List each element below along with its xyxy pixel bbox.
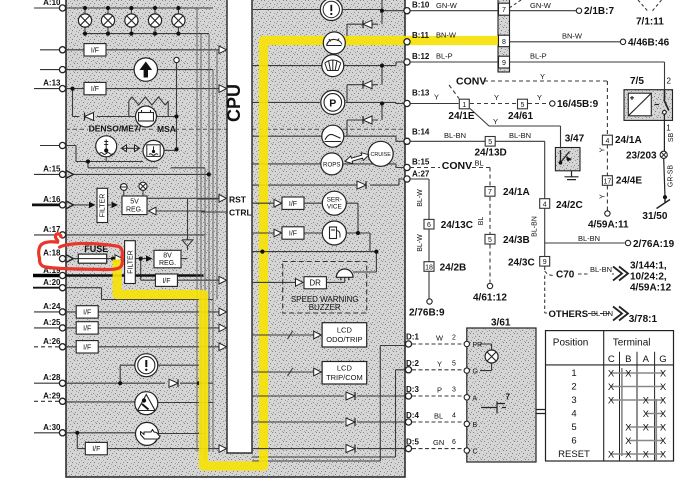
- svg-text:X: X: [643, 449, 650, 460]
- connector 24/1A pin 4: [602, 135, 612, 145]
- connector 24/1E pin 1: [459, 99, 469, 109]
- svg-text:A:25: A:25: [43, 318, 61, 327]
- position/terminal table frame: [546, 331, 674, 461]
- pin A:18: [59, 256, 65, 262]
- svg-text:D:4: D:4: [406, 411, 419, 420]
- bulb check indicator C1: [320, 0, 342, 21]
- pin D:3: [405, 393, 411, 399]
- pin (unlabeled): [59, 67, 65, 73]
- pin PR: [464, 341, 469, 346]
- battery symbol: [136, 106, 157, 127]
- wire A:15 long row: [74, 173, 209, 175]
- pin D:1: [405, 341, 411, 347]
- svg-text:6: 6: [427, 222, 431, 229]
- svg-text:A:30: A:30: [43, 423, 61, 432]
- switch 3/47 internals: [561, 150, 570, 163]
- svg-text:BL-P: BL-P: [530, 52, 547, 61]
- wire D:3 row: [252, 395, 405, 397]
- wire pin3 lead: [40, 69, 60, 71]
- svg-text:2: 2: [452, 335, 456, 342]
- wire A:26 row: [66, 346, 219, 348]
- wire B:13 Y to 24/1E: [410, 103, 459, 105]
- wire diode row under temp: [88, 162, 205, 168]
- wire rops row B:15: [252, 164, 405, 168]
- svg-text:5: 5: [521, 102, 525, 109]
- interface I/F box A:26: [76, 341, 98, 353]
- minus-circle symbol above 5V: [123, 190, 125, 196]
- voltage stabilizer 7/5 body: [624, 90, 673, 121]
- svg-text:2: 2: [571, 382, 576, 393]
- switch 3/47 body: [555, 148, 580, 171]
- wire A:20 row: [66, 288, 213, 300]
- wire wiper row B:12: [252, 62, 405, 66]
- svg-text:BL-P: BL-P: [436, 52, 453, 61]
- svg-text:A: A: [643, 354, 650, 365]
- pin A:26: [59, 344, 65, 350]
- pin B:12: [404, 59, 410, 65]
- svg-text:5: 5: [488, 139, 492, 146]
- svg-text:Y: Y: [600, 194, 607, 199]
- wire D:2 dashed to 3/61: [412, 369, 467, 371]
- wire B:11 BN-W after connector: [510, 41, 620, 43]
- wire A:25 row: [66, 327, 219, 329]
- svg-text:BL-BN: BL-BN: [444, 131, 466, 140]
- svg-text:24/13C: 24/13C: [441, 220, 473, 231]
- svg-text:24/3C: 24/3C: [508, 257, 535, 268]
- svg-text:4: 4: [452, 413, 456, 420]
- svg-text:A: A: [473, 395, 478, 402]
- wire bulb-check row B:10: [252, 0, 405, 11]
- hand-drawn red circle around FUSE: [39, 234, 123, 270]
- chevron to 3/144 group: [613, 267, 628, 281]
- svg-text:BL-W: BL-W: [417, 189, 424, 207]
- svg-text:BL-BN: BL-BN: [591, 309, 613, 318]
- diode D-B13: [363, 116, 372, 124]
- wire A:10 lamp supply row: [66, 7, 213, 9]
- svg-text:B:11: B:11: [412, 31, 429, 40]
- svg-text:A:18: A:18: [43, 249, 61, 258]
- svg-text:4: 4: [543, 201, 547, 208]
- wire pin2 lead: [40, 49, 60, 51]
- svg-text:BL-BN: BL-BN: [590, 265, 612, 274]
- svg-text:FILTER: FILTER: [127, 250, 134, 274]
- wire A:15 lead: [34, 173, 60, 175]
- wire A:20 lead: [33, 287, 60, 289]
- pin A:28: [59, 380, 65, 386]
- svg-text:3/144:1,: 3/144:1,: [630, 261, 667, 272]
- pin C: [464, 448, 469, 453]
- pin B:14: [404, 138, 410, 144]
- svg-text:GN: GN: [433, 438, 444, 447]
- wire diode row1: [347, 11, 382, 42]
- svg-text:4/61:12: 4/61:12: [473, 293, 507, 304]
- pin A:24: [59, 309, 65, 315]
- svg-text:7/5: 7/5: [630, 76, 644, 87]
- wire A:18 lead: [63, 258, 66, 260]
- wire MSA bus vertical: [176, 63, 178, 150]
- junction dots left area: [83, 6, 87, 10]
- pin A:17: [59, 232, 65, 238]
- svg-text:Y: Y: [494, 93, 499, 102]
- filter box (8V): [125, 241, 136, 284]
- dashed 24/3C to C70 and OTHERS: [545, 267, 614, 314]
- connector strip pins 7-9: [498, 0, 510, 72]
- svg-text:X: X: [643, 395, 650, 406]
- regulator 8V REG: [154, 250, 181, 267]
- svg-text:24/1E: 24/1E: [448, 111, 474, 122]
- connector pin 9: [499, 56, 510, 68]
- driver DR box: [304, 277, 326, 289]
- svg-text:D:5: D:5: [406, 438, 419, 447]
- svg-text:G: G: [659, 354, 666, 365]
- pin B:15: [404, 164, 410, 170]
- connector 24/2B pin 18: [424, 262, 434, 272]
- pin D:4: [405, 419, 411, 425]
- wire A:17 row: [66, 234, 205, 236]
- combi switch 3/61 body: [467, 328, 536, 462]
- svg-text:5: 5: [452, 360, 456, 367]
- svg-text:4: 4: [571, 409, 576, 420]
- svg-text:D:1: D:1: [406, 333, 419, 342]
- wire D:5 dashed to 3/61: [412, 448, 467, 450]
- connector 24/1A pin 7: [485, 187, 495, 197]
- connector 24/4E pin 17: [602, 176, 612, 186]
- wire D rows over highlight: [256, 396, 271, 449]
- svg-text:BL-BN: BL-BN: [578, 234, 600, 243]
- dashed CONV Y upper: [449, 81, 607, 135]
- svg-text:REG.: REG.: [126, 207, 143, 214]
- wire B:10 GN-W: [410, 10, 576, 12]
- lamp L4: [148, 14, 161, 27]
- svg-text:B: B: [625, 354, 631, 365]
- wire A:16 lead bold: [32, 203, 60, 206]
- diode D-A27: [357, 181, 366, 189]
- interface I/F box 8V row: [155, 274, 177, 286]
- svg-text:2/1B:7: 2/1B:7: [584, 6, 614, 17]
- diode D-D3: [346, 392, 355, 400]
- connector 24/13C pin 6: [424, 219, 434, 229]
- svg-text:Terminal: Terminal: [613, 338, 651, 349]
- svg-text:24/4E: 24/4E: [616, 176, 642, 187]
- diode D-B12: [363, 81, 372, 89]
- filter box (5V): [97, 188, 108, 222]
- wire D:2 net: [252, 370, 405, 457]
- svg-text:ROPS: ROPS: [323, 161, 341, 168]
- wire B:14 BL-BN: [410, 141, 545, 256]
- svg-text:A:29: A:29: [43, 391, 61, 400]
- svg-text:OTHERS: OTHERS: [549, 309, 589, 320]
- svg-text:A:20: A:20: [43, 278, 61, 287]
- pin (unlabeled): [59, 47, 65, 53]
- wire battery branch: [73, 89, 177, 117]
- interface I/F box A:24: [76, 306, 98, 318]
- voltage stabilizer inner box: [628, 93, 651, 116]
- wire lamp stubs bottom + return row: [85, 27, 209, 33]
- svg-text:P: P: [437, 386, 442, 395]
- wire fuse row A:18: [73, 258, 187, 260]
- svg-text:X: X: [660, 449, 667, 460]
- svg-text:B:15: B:15: [412, 158, 430, 167]
- svg-text:X: X: [660, 395, 667, 406]
- svg-text:X: X: [625, 449, 632, 460]
- ground at 3/47: [565, 171, 579, 180]
- double arrow DENSO/MSA: [122, 145, 140, 152]
- pin A:19: [59, 272, 65, 278]
- wire A:29 lead dashed: [34, 400, 60, 402]
- display LCD TRIP/COM: [322, 362, 367, 385]
- pin A:20: [59, 285, 65, 291]
- svg-text:4/59A:12: 4/59A:12: [630, 283, 672, 294]
- svg-text:BL: BL: [478, 217, 485, 226]
- high beam indicator: [134, 58, 157, 81]
- wire B:12 BL-P: [410, 62, 665, 90]
- svg-text:B:10: B:10: [412, 1, 430, 10]
- seat belt warning indicator: [135, 392, 158, 415]
- svg-text:LCD: LCD: [337, 326, 353, 335]
- connector pin 7: [499, 3, 510, 15]
- lamp L2: [101, 14, 114, 27]
- speed warning buzzer dashed box: [283, 262, 367, 314]
- dashed B:15 CONV BL chain: [410, 168, 490, 283]
- svg-text:8: 8: [502, 39, 506, 46]
- wire A:24 row: [66, 311, 219, 313]
- double arrow rops-cruise: [345, 153, 369, 164]
- diode D-D4: [346, 418, 355, 426]
- pin B:13: [404, 100, 410, 106]
- wire diode row3: [347, 104, 382, 137]
- wire Y diagonal from 24/1E: [470, 109, 561, 148]
- dashed diagonal top connector: [510, 0, 521, 8]
- arrows into CPU: [219, 46, 227, 54]
- dashed V 7/1:11: [638, 0, 662, 12]
- buzzer dome: [336, 269, 353, 277]
- diode D-A28: [169, 379, 178, 387]
- wire A:13 lead: [34, 88, 60, 90]
- svg-text:X: X: [625, 422, 632, 433]
- link to table: [536, 410, 546, 414]
- wire A:24 lead: [34, 311, 60, 313]
- svg-text:A:13: A:13: [43, 79, 61, 88]
- svg-text:GN-W: GN-W: [436, 1, 458, 10]
- svg-text:BN-W: BN-W: [436, 30, 457, 39]
- wire A:27 diode row: [252, 179, 405, 185]
- svg-text:X: X: [625, 436, 632, 447]
- svg-text:A:24: A:24: [43, 302, 61, 311]
- svg-text:TRIP/COM: TRIP/COM: [326, 373, 363, 382]
- connector 24/2C pin 4: [540, 199, 550, 209]
- svg-text:X: X: [608, 449, 615, 460]
- svg-text:X: X: [660, 436, 667, 447]
- svg-text:2/76B:9: 2/76B:9: [409, 308, 445, 319]
- svg-text:X: X: [660, 368, 667, 379]
- pin B:10: [404, 8, 410, 14]
- svg-text:C70: C70: [556, 270, 575, 281]
- wire D:4 dashed to 3/61: [412, 421, 467, 423]
- svg-text:24/3B: 24/3B: [503, 235, 530, 246]
- wire A:10 lead: [34, 7, 60, 9]
- svg-text:C: C: [608, 354, 615, 365]
- wire A:13 row: [66, 88, 219, 90]
- svg-text:3/78:1: 3/78:1: [629, 314, 658, 325]
- hood open indicator C5: [322, 125, 344, 147]
- svg-text:ODO/TRIP: ODO/TRIP: [326, 335, 362, 344]
- wire buzzer feed over highlight: [256, 251, 271, 253]
- wire A:19 bold row: [66, 274, 204, 276]
- svg-text:9: 9: [502, 60, 506, 67]
- svg-text:MSA: MSA: [157, 124, 176, 134]
- svg-text:PR: PR: [473, 342, 483, 349]
- diode D-D5: [346, 445, 355, 453]
- svg-text:X: X: [643, 422, 650, 433]
- resistor R above battery: [129, 97, 169, 117]
- interface I/F box A:25: [76, 322, 98, 334]
- terminal connection lines: [611, 368, 663, 460]
- svg-text:Y: Y: [434, 93, 439, 102]
- bus verticals: [197, 8, 217, 461]
- wire pin4 lead: [40, 145, 60, 147]
- svg-text:CONV: CONV: [442, 160, 472, 172]
- brake warning indicator: [135, 354, 158, 377]
- wire A:29 belt row: [66, 401, 213, 404]
- svg-text:X: X: [625, 368, 632, 379]
- wire D:1 net: [252, 346, 405, 462]
- wire A:26 lead dashed: [34, 346, 60, 348]
- svg-text:GN-W: GN-W: [530, 1, 552, 10]
- svg-text:5V: 5V: [130, 199, 139, 206]
- wire diode row2: [347, 66, 382, 103]
- wire D:4 row: [252, 421, 405, 423]
- svg-text:X: X: [608, 368, 615, 379]
- pin A:30: [59, 430, 65, 436]
- diode D-A13: [85, 113, 94, 121]
- lamp L5: [172, 14, 185, 27]
- pin (unlabeled): [59, 142, 65, 148]
- wire service/fuel rows over highlight: [256, 203, 271, 233]
- arrow into 5V from right: [149, 207, 157, 215]
- svg-text:Y: Y: [437, 359, 442, 368]
- svg-text:Y: Y: [493, 117, 498, 126]
- pin B: [464, 421, 469, 426]
- connector 24/61 pin 5: [518, 99, 528, 109]
- wire LCD2 row: [252, 371, 315, 373]
- wire service row: [252, 202, 358, 204]
- svg-text:X: X: [660, 422, 667, 433]
- svg-text:23/203: 23/203: [626, 150, 657, 161]
- wire hood row B:14: [252, 136, 405, 141]
- pin A:16: [59, 202, 65, 208]
- lamp in 3/61: [480, 344, 492, 371]
- highlighter yellow trace: [117, 41, 499, 467]
- svg-text:31/50: 31/50: [642, 211, 667, 222]
- pin A: [464, 395, 469, 400]
- pin D:2: [405, 367, 411, 373]
- arrow after fuse: [115, 255, 123, 263]
- wire RST row: [197, 198, 218, 200]
- svg-text:1: 1: [666, 124, 671, 133]
- svg-text:C: C: [473, 449, 478, 456]
- svg-text:24/13D: 24/13D: [475, 148, 507, 159]
- connector 24/3C pin 9: [540, 257, 550, 267]
- wire A:25 lead: [34, 327, 60, 329]
- wire I/F row1: [66, 49, 219, 51]
- svg-text:SER-: SER-: [327, 197, 342, 204]
- wire temp row: [66, 146, 143, 162]
- svg-text:BL-BN: BL-BN: [509, 131, 531, 140]
- cruise indicator C7: [368, 141, 393, 166]
- svg-text:BUZZER: BUZZER: [309, 303, 341, 312]
- svg-text:2: 2: [667, 77, 672, 86]
- display LCD ODO/TRIP: [322, 323, 367, 347]
- svg-text:Y: Y: [540, 72, 545, 81]
- svg-text:BN-W: BN-W: [562, 31, 583, 40]
- svg-text:X: X: [643, 409, 650, 420]
- pin G: [464, 368, 469, 373]
- parking brake indicator C4: [321, 90, 345, 114]
- pin D:5: [405, 446, 411, 452]
- svg-text:A:16: A:16: [43, 195, 61, 204]
- svg-text:SB: SB: [668, 133, 675, 143]
- lamp L1: [78, 14, 91, 27]
- lamp symbol above 5V: [142, 190, 144, 196]
- wire fuel row: [252, 232, 358, 234]
- junction dot on highlight: [260, 250, 264, 254]
- ground 31/50: [657, 197, 671, 208]
- svg-text:24/1A: 24/1A: [615, 135, 642, 146]
- wire CTRL row: [201, 211, 227, 213]
- svg-text:7: 7: [506, 393, 511, 402]
- svg-text:17: 17: [604, 178, 612, 185]
- connector pin 8: [499, 35, 510, 47]
- interface I/F box row1: [84, 44, 106, 56]
- svg-text:B:14: B:14: [412, 127, 430, 136]
- svg-text:5: 5: [571, 422, 576, 433]
- svg-text:4/59A:11: 4/59A:11: [588, 219, 629, 230]
- svg-text:1: 1: [571, 368, 576, 379]
- dashed 24/1E to 24/61 to 16/45B:9: [470, 103, 549, 105]
- pin B:11: [404, 39, 410, 45]
- svg-text:6: 6: [571, 436, 576, 447]
- rops indicator C6: [321, 153, 343, 175]
- svg-text:B: B: [473, 422, 478, 429]
- svg-text:8V: 8V: [163, 253, 172, 260]
- svg-text:3/61: 3/61: [491, 318, 511, 329]
- svg-text:Y: Y: [600, 147, 607, 152]
- washer jet indicator C3: [322, 55, 344, 77]
- svg-text:2/76A:19: 2/76A:19: [633, 239, 675, 250]
- pin A:29: [59, 398, 65, 404]
- svg-text:Y: Y: [537, 93, 542, 102]
- svg-text:BL: BL: [475, 159, 484, 168]
- pin A:25: [59, 325, 65, 331]
- svg-text:7/1:11: 7/1:11: [636, 17, 664, 28]
- coolant temp warning icon MSA: [143, 140, 164, 161]
- regulator 5V REG: [122, 196, 147, 215]
- wire D:5 row: [252, 448, 405, 450]
- svg-text:6: 6: [452, 439, 456, 446]
- X marks: [608, 368, 667, 460]
- svg-text:A:27: A:27: [412, 170, 430, 179]
- svg-text:VICE: VICE: [327, 204, 342, 211]
- svg-text:X: X: [608, 382, 615, 393]
- svg-text:X: X: [660, 382, 667, 393]
- lamp L3: [125, 14, 138, 27]
- svg-text:A:28: A:28: [43, 373, 61, 382]
- svg-text:A:15: A:15: [43, 164, 61, 173]
- svg-text:A:10: A:10: [43, 0, 61, 7]
- svg-text:X: X: [660, 409, 667, 420]
- instrument cluster module body: [66, 0, 405, 477]
- wire 8V reg antenna: [182, 199, 193, 250]
